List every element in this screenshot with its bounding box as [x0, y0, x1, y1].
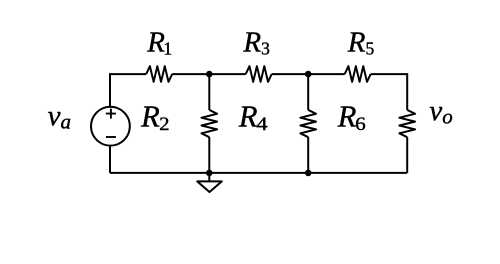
wire node2 rail bottom — [307, 137, 309, 173]
resistor R2 (vertical at node1) — [202, 110, 218, 137]
node dot top node1 — [206, 71, 213, 78]
wire bottom — [110, 172, 407, 174]
node dot bottom node1 — [206, 170, 213, 177]
ground symbol (open triangle) — [197, 181, 222, 192]
voltage source va circle — [91, 107, 130, 146]
wire top-right corner down — [371, 74, 408, 110]
resistor R5 — [345, 66, 371, 82]
wire node1 rail bottom — [208, 137, 210, 173]
wire top between R1 and R3 — [172, 73, 246, 75]
wire node2 rail top — [307, 74, 309, 110]
wire left rail bottom — [109, 146, 111, 173]
ground stub wire — [208, 173, 210, 181]
node dot top node2 — [305, 71, 312, 78]
svg-text:R4: R4 — [238, 100, 268, 135]
svg-text:R3: R3 — [242, 26, 270, 58]
wire right rail bottom — [406, 137, 408, 173]
svg-text:vo: vo — [429, 95, 452, 128]
wire top-left segment — [110, 74, 146, 107]
minus sign inside source — [106, 136, 116, 138]
resistor vo load (vertical at right rail) — [399, 110, 415, 137]
resistor R4 (vertical at node2) — [300, 110, 316, 137]
svg-text:R6: R6 — [337, 100, 366, 135]
svg-text:R2: R2 — [140, 100, 169, 135]
wire node1 rail top — [208, 74, 210, 110]
resistor R3 — [246, 66, 272, 82]
svg-text:R5: R5 — [347, 26, 375, 58]
wire top between R3 and R5 — [272, 73, 345, 75]
resistor R1 — [146, 66, 172, 82]
svg-text:va: va — [48, 100, 71, 133]
node dot bottom node2 — [305, 170, 312, 177]
plus sign inside source — [106, 109, 116, 119]
svg-text:R1: R1 — [146, 26, 172, 58]
